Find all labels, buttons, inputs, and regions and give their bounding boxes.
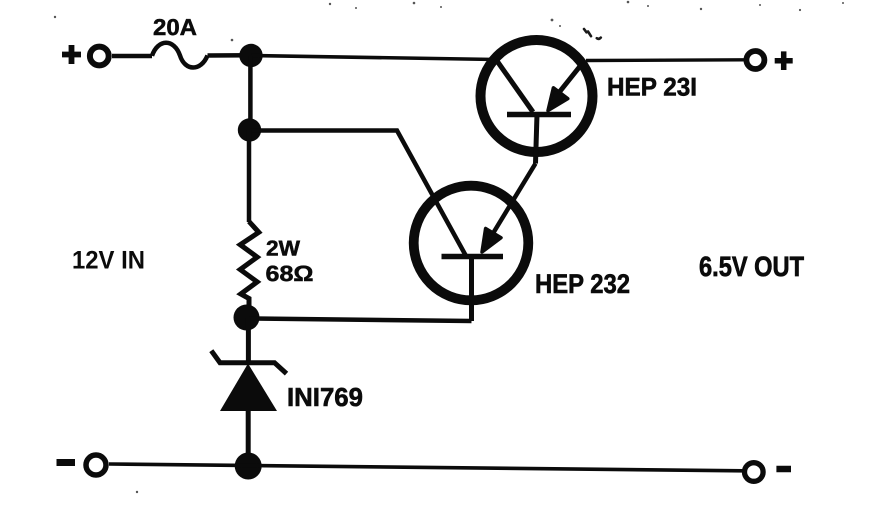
- svg-text:12V IN: 12V IN: [72, 247, 145, 275]
- wire node C down to zener D1: [246, 318, 251, 361]
- wire fuse to node A: [208, 53, 252, 58]
- transistor Q2 base lead down: [469, 258, 474, 321]
- transistor Q2 emitter arrow: [482, 229, 501, 253]
- bottom right terminal: [745, 463, 764, 482]
- node B junction dot: [238, 118, 261, 141]
- node C junction dot: [234, 305, 260, 331]
- node D junction dot: [235, 453, 262, 480]
- output terminal: [746, 51, 764, 69]
- transistor Q1 HEP 231 circle: [481, 40, 593, 152]
- transistor Q1 emitter lead: [557, 60, 585, 95]
- wire Q1 base to Q2 emitter: [492, 164, 536, 236]
- svg-text:HEP 23I: HEP 23I: [607, 74, 697, 102]
- wire node A down to node B: [248, 56, 253, 131]
- transistor Q1 emitter arrow: [548, 88, 568, 111]
- transistor Q2 HEP 232 circle: [414, 186, 529, 301]
- wire zener D1 to node D: [246, 411, 251, 466]
- svg-text:68Ω: 68Ω: [266, 261, 314, 286]
- input terminal: [90, 47, 109, 66]
- transistor Q1 base bar: [507, 112, 571, 118]
- wire input terminal to fuse: [112, 54, 152, 59]
- wire Q1 emitter to output terminal: [586, 58, 744, 62]
- transistor Q1 collector lead: [496, 60, 533, 113]
- resistor R1 2W 68ohm: [240, 222, 259, 319]
- wire node C to Q2 base: [249, 319, 472, 322]
- bottom rail wire: [109, 464, 743, 471]
- minus sign bottom right: [776, 466, 791, 473]
- svg-text:INI769: INI769: [287, 382, 363, 412]
- transistor Q1 base lead down: [536, 115, 538, 164]
- svg-text:20A: 20A: [153, 14, 197, 40]
- scan speck marks near Q1 top: [584, 29, 601, 39]
- wire node B to Q2 collector: [250, 131, 467, 257]
- plus sign input: [62, 45, 81, 64]
- minus sign bottom left: [57, 459, 76, 466]
- svg-text:2W: 2W: [266, 237, 301, 261]
- fuse F1 20A: [152, 43, 208, 68]
- transistor Q2 base bar: [442, 254, 504, 260]
- plus sign output: [775, 51, 793, 70]
- bottom left terminal: [86, 455, 106, 475]
- svg-text:HEP 232: HEP 232: [535, 269, 630, 299]
- zener D1 anode triangle: [220, 364, 277, 412]
- node A junction dot: [239, 44, 262, 67]
- zener D1 cathode bar: [211, 351, 286, 374]
- wire node A to Q1 collector: [251, 56, 496, 60]
- svg-text:6.5V OUT: 6.5V OUT: [699, 251, 804, 282]
- wire node B down to resistor R1: [247, 130, 252, 222]
